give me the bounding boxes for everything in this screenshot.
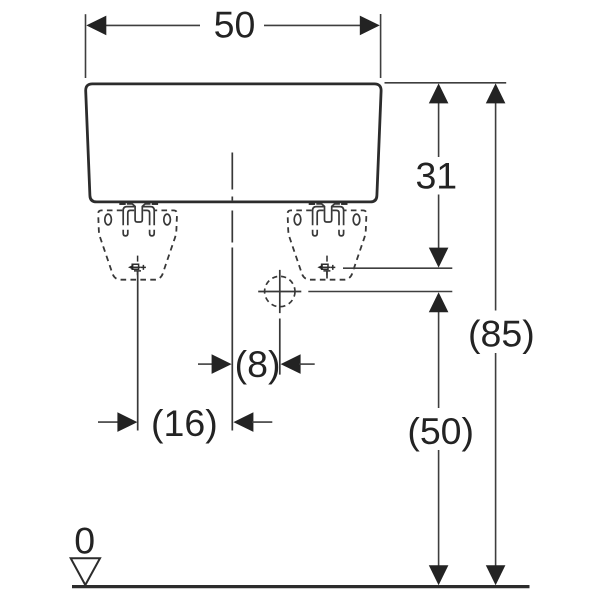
svg-text:31: 31 <box>415 155 457 197</box>
right bracket stub line <box>326 271 328 278</box>
top right extension line <box>385 82 507 84</box>
left bracket <box>98 204 177 280</box>
svg-text:(16): (16) <box>151 402 218 444</box>
drain level extension line <box>308 291 452 293</box>
bracket level extension line <box>343 267 452 269</box>
basin centreline <box>231 153 233 431</box>
right arrowhead <box>360 16 380 36</box>
dimension 50 <box>86 4 381 79</box>
svg-text:50: 50 <box>214 4 256 46</box>
right bracket <box>288 204 367 280</box>
left bracket centreline <box>137 271 139 430</box>
dimension line right part <box>264 24 362 26</box>
drain centreline vertical <box>279 270 281 375</box>
dimension (8) <box>198 343 315 385</box>
dimension line left part <box>104 24 200 26</box>
dimension (16) <box>98 402 272 444</box>
svg-text:(8): (8) <box>235 343 281 385</box>
svg-text:(50): (50) <box>407 410 474 452</box>
drain crosshair horizontal <box>258 291 301 293</box>
washbasin outline <box>86 84 381 202</box>
left arrowhead <box>86 16 106 36</box>
svg-text:0: 0 <box>74 519 95 561</box>
dimension 31 <box>415 83 457 267</box>
svg-text:(85): (85) <box>468 313 535 355</box>
floor baseline <box>72 585 530 588</box>
dimension (85) <box>468 83 535 585</box>
left extension line <box>85 14 87 78</box>
dimension (50) <box>407 292 474 585</box>
datum triangle <box>71 558 100 585</box>
drain circle <box>265 276 295 306</box>
right extension line <box>380 14 382 78</box>
